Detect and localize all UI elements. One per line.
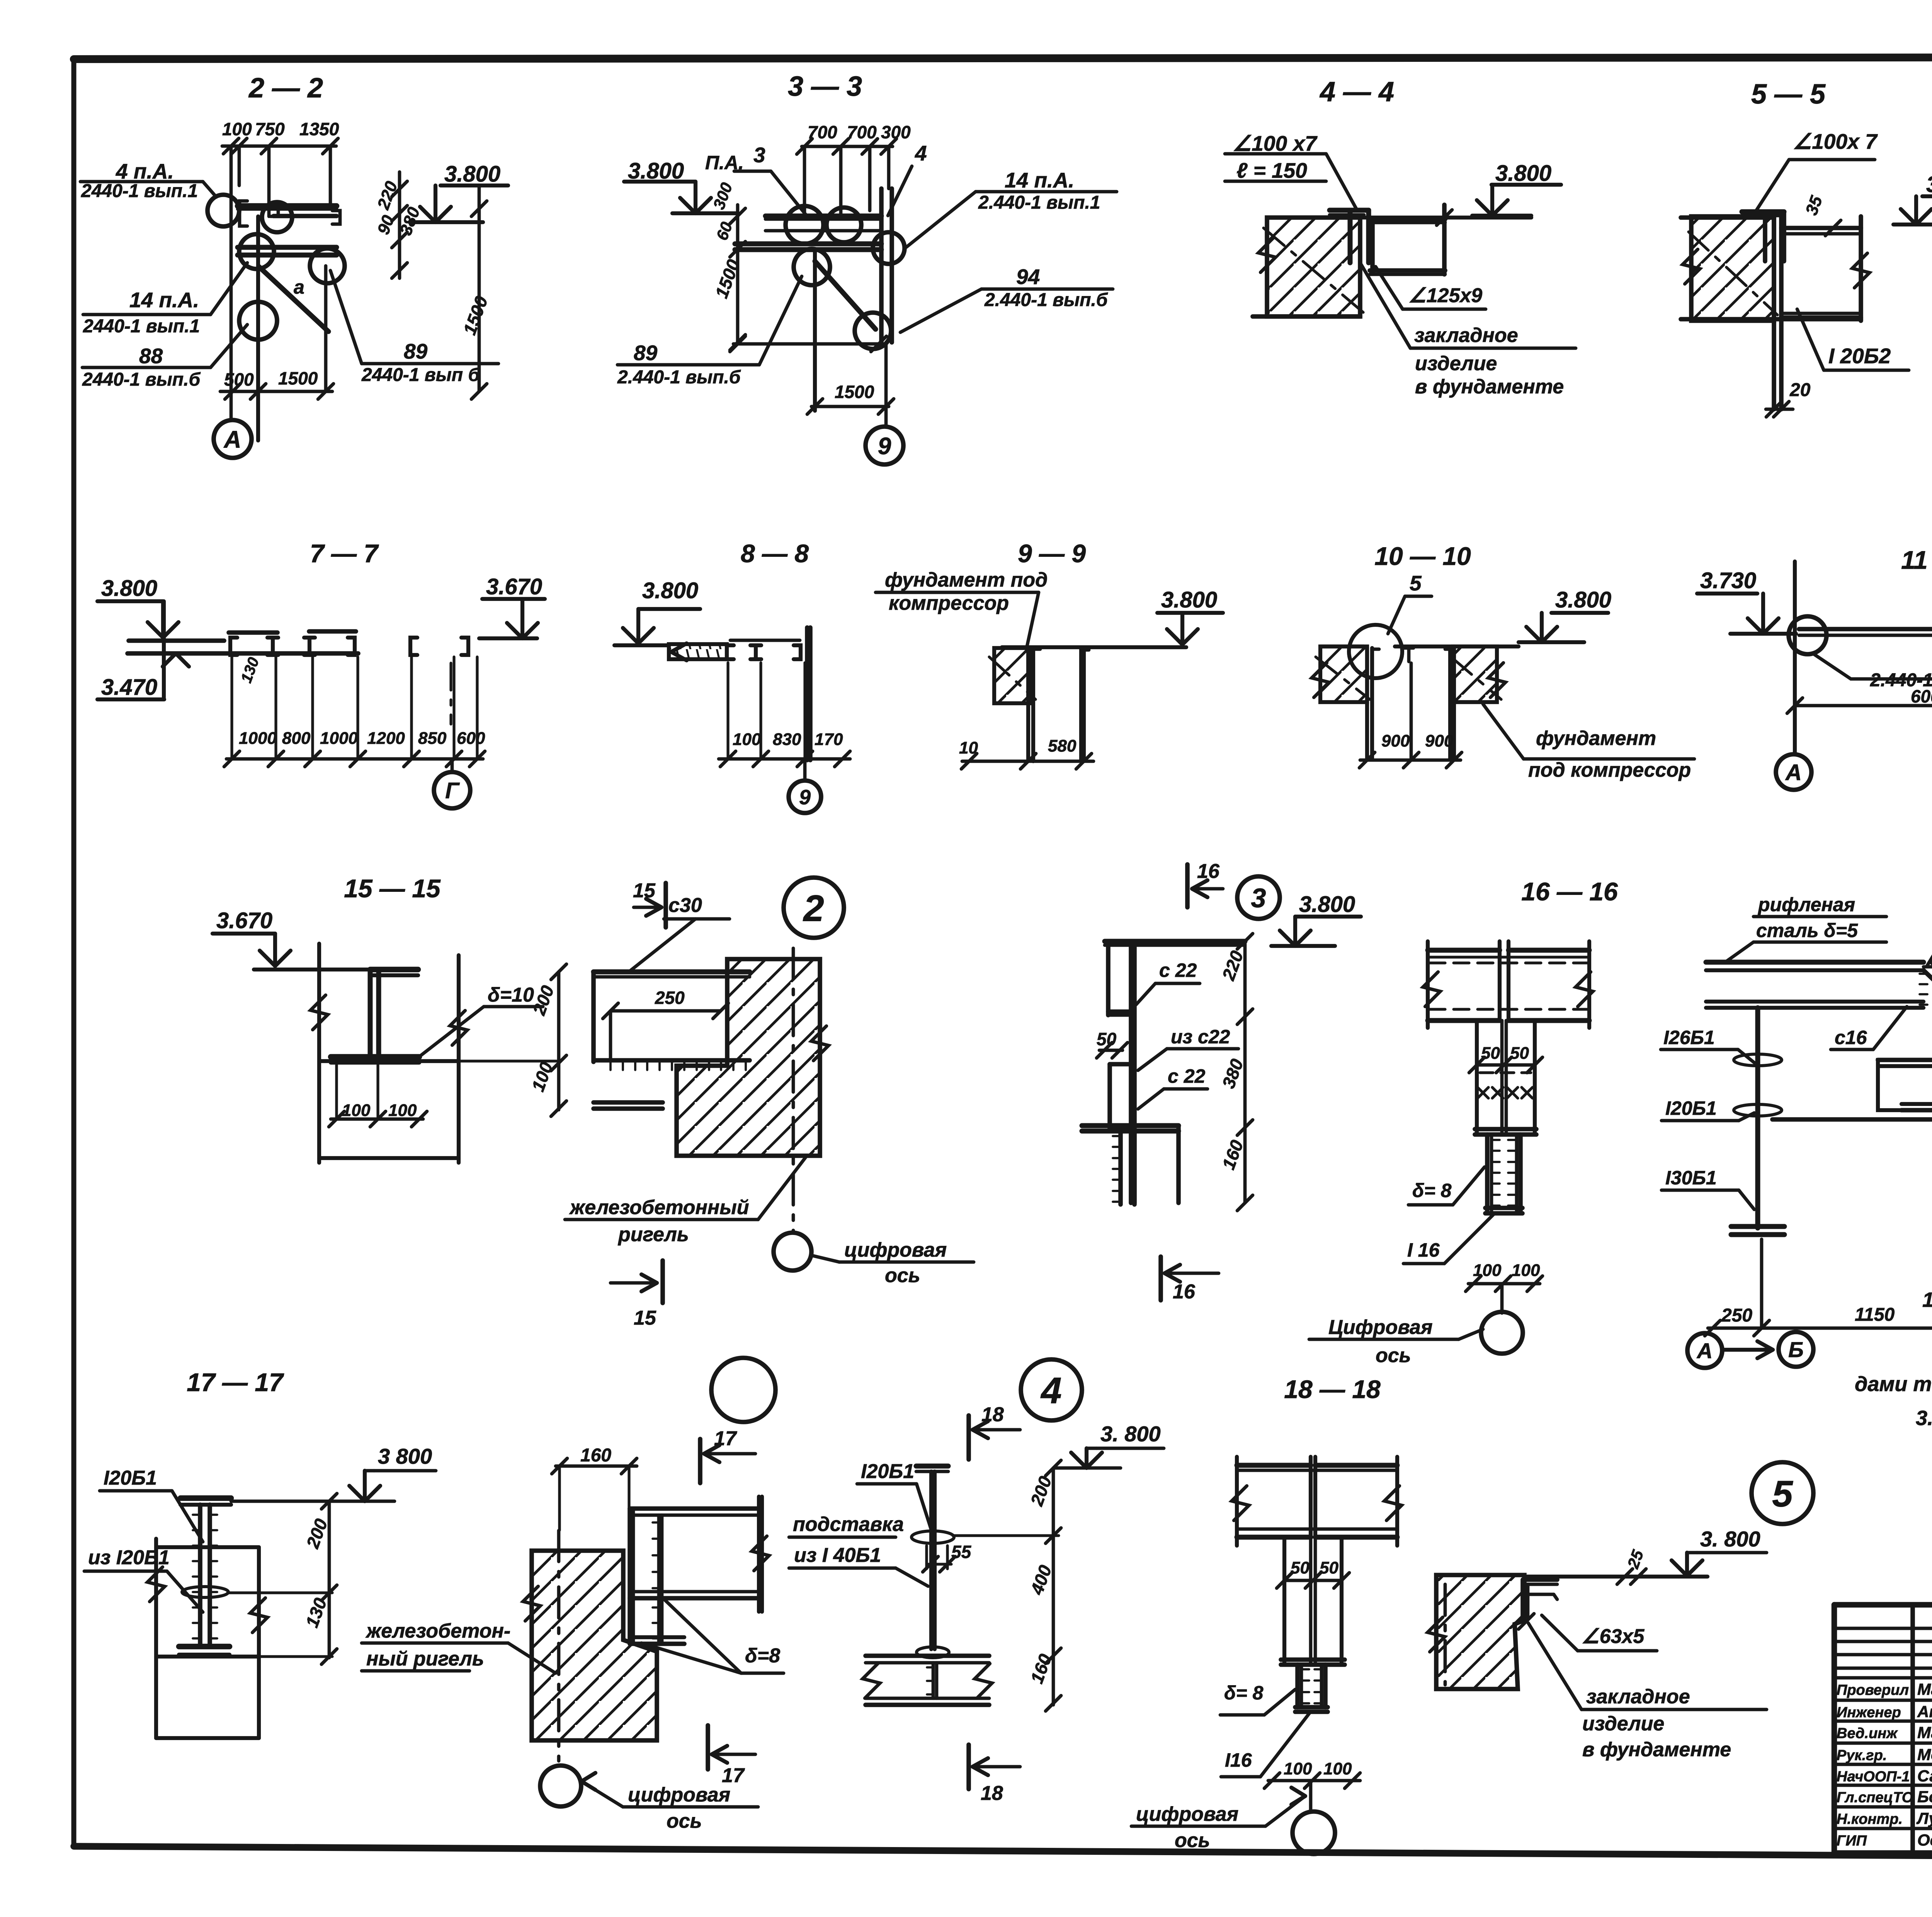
svg-text:14 п.А.: 14 п.А.	[1005, 168, 1074, 192]
svg-text:3.800: 3.800	[642, 578, 698, 603]
svg-text:ный ригель: ный ригель	[366, 1648, 484, 1670]
svg-text:Моргунов: Моргунов	[1917, 1745, 1932, 1764]
svg-text:3.800: 3.800	[1495, 161, 1551, 186]
svg-text:17: 17	[722, 1764, 745, 1787]
svg-text:Н.контр.: Н.контр.	[1837, 1811, 1903, 1827]
svg-text:18 — 18: 18 — 18	[1284, 1375, 1381, 1403]
svg-text:16: 16	[1197, 860, 1220, 883]
svg-text:I30Б1: I30Б1	[1665, 1167, 1717, 1189]
svg-text:9 — 9: 9 — 9	[1018, 539, 1086, 568]
svg-text:рифленая: рифленая	[1757, 894, 1855, 915]
svg-text:Боярченко: Боярченко	[1917, 1788, 1932, 1806]
svg-text:16 — 16: 16 — 16	[1521, 877, 1618, 906]
svg-text:3 — 3: 3 — 3	[788, 71, 862, 102]
svg-text:3.670: 3.670	[216, 908, 272, 933]
svg-text:I 16: I 16	[1407, 1239, 1440, 1261]
svg-text:5: 5	[1410, 571, 1422, 595]
svg-text:А: А	[223, 426, 241, 453]
svg-text:из I 40Б1: из I 40Б1	[794, 1544, 881, 1567]
svg-text:1500: 1500	[278, 368, 318, 388]
svg-text:4 — 4: 4 — 4	[1319, 77, 1394, 107]
svg-text:100: 100	[222, 119, 252, 139]
svg-text:δ=10: δ=10	[488, 984, 534, 1006]
svg-text:88: 88	[139, 344, 163, 368]
svg-text:Осташевский: Осташевский	[1917, 1831, 1932, 1849]
svg-text:3. 800: 3. 800	[1100, 1422, 1161, 1446]
svg-text:подставка: подставка	[793, 1513, 904, 1536]
svg-text:3.775: 3.775	[1926, 172, 1932, 197]
svg-text:89: 89	[634, 341, 658, 365]
svg-text:I16: I16	[1225, 1749, 1252, 1771]
svg-text:ℓ = 150: ℓ = 150	[1236, 158, 1307, 182]
svg-text:100: 100	[1512, 1261, 1540, 1280]
svg-text:Макарова: Макарова	[1917, 1723, 1932, 1742]
svg-text:160: 160	[580, 1445, 611, 1466]
svg-text:3.730: 3.730	[1700, 568, 1756, 593]
svg-text:изделие: изделие	[1415, 352, 1497, 375]
svg-text:закладное: закладное	[1414, 324, 1518, 347]
svg-text:железобетон-: железобетон-	[365, 1620, 510, 1642]
svg-text:I 20Б2: I 20Б2	[1828, 344, 1891, 368]
svg-text:1000: 1000	[320, 729, 358, 748]
svg-text:100: 100	[342, 1101, 371, 1120]
svg-text:20: 20	[1789, 380, 1811, 400]
svg-text:900: 900	[1381, 731, 1410, 750]
svg-text:ГИП: ГИП	[1837, 1833, 1867, 1849]
svg-text:17 — 17: 17 — 17	[187, 1368, 284, 1397]
svg-text:3: 3	[753, 143, 765, 167]
svg-text:89: 89	[404, 339, 428, 363]
svg-text:I20Б1: I20Б1	[1665, 1097, 1717, 1119]
svg-text:Инженер: Инженер	[1837, 1704, 1901, 1721]
svg-text:3: 3	[1251, 883, 1266, 913]
svg-text:3.800: 3.800	[1299, 892, 1355, 917]
svg-text:10: 10	[959, 738, 978, 757]
svg-text:ось: ось	[885, 1264, 920, 1287]
svg-text:3.470: 3.470	[101, 675, 157, 700]
svg-text:11 — 11: 11 — 11	[1901, 546, 1932, 574]
svg-text:под компрессор: под компрессор	[1528, 759, 1691, 781]
svg-text:850: 850	[418, 729, 447, 748]
svg-text:сталь δ=5: сталь δ=5	[1756, 920, 1858, 941]
svg-text:5 — 5: 5 — 5	[1751, 79, 1826, 110]
svg-text:250: 250	[655, 988, 685, 1008]
svg-text:∠100 х7: ∠100 х7	[1233, 131, 1318, 155]
svg-text:5: 5	[1772, 1473, 1793, 1515]
svg-text:с 22: с 22	[1159, 959, 1197, 981]
svg-text:1. Разрезы и узлы замаркиро: 1. Разрезы и узлы замаркированы на листа…	[1922, 1288, 1932, 1311]
svg-text:750: 750	[255, 119, 285, 139]
svg-text:14 п.А.: 14 п.А.	[129, 288, 199, 312]
svg-text:9: 9	[878, 433, 891, 459]
svg-text:А: А	[1785, 760, 1802, 785]
svg-text:I20Б1: I20Б1	[104, 1467, 157, 1489]
svg-text:3. Сварка ручная дуговая hш: 3. Сварка ручная дуговая hш =6 мм.	[1916, 1407, 1932, 1430]
svg-text:Андреева: Андреева	[1917, 1703, 1932, 1721]
svg-text:3 800: 3 800	[378, 1444, 432, 1468]
svg-text:Вед.инж: Вед.инж	[1837, 1725, 1898, 1742]
svg-text:580: 580	[1048, 737, 1077, 755]
svg-text:ось: ось	[1175, 1829, 1210, 1852]
svg-text:2.440-1 вып.б: 2.440-1 вып.б	[617, 367, 741, 388]
svg-text:ось: ось	[667, 1810, 702, 1832]
svg-text:закладное: закладное	[1586, 1686, 1690, 1708]
svg-text:δ= 8: δ= 8	[1412, 1180, 1452, 1201]
svg-text:железобетонный: железобетонный	[569, 1196, 749, 1219]
svg-text:1200: 1200	[367, 729, 405, 748]
svg-text:с 22: с 22	[1168, 1065, 1206, 1087]
svg-text:2.440-1 вып.б: 2.440-1 вып.б	[984, 290, 1108, 310]
svg-text:с30: с30	[668, 894, 702, 917]
svg-text:ось: ось	[1376, 1344, 1411, 1367]
svg-text:НачООП-1: НачООП-1	[1837, 1769, 1910, 1785]
svg-text:2440-1 вып.1: 2440-1 вып.1	[81, 181, 198, 201]
svg-text:∠125х9: ∠125х9	[1408, 284, 1482, 307]
svg-text:18: 18	[981, 1403, 1004, 1426]
svg-text:17: 17	[714, 1427, 737, 1450]
svg-text:50: 50	[1320, 1558, 1338, 1577]
svg-text:250: 250	[1721, 1305, 1752, 1326]
svg-text:Саакьянц: Саакьянц	[1917, 1767, 1932, 1785]
svg-text:3.800: 3.800	[101, 576, 157, 601]
svg-text:∠63х5: ∠63х5	[1582, 1625, 1645, 1648]
svg-text:А: А	[1696, 1339, 1713, 1363]
svg-text:δ=8: δ=8	[745, 1645, 780, 1667]
svg-text:Макарова: Макарова	[1917, 1680, 1932, 1698]
svg-text:Г: Г	[445, 778, 460, 803]
svg-text:2: 2	[803, 888, 824, 929]
svg-text:в фундаменте: в фундаменте	[1582, 1738, 1731, 1761]
svg-text:700: 700	[847, 122, 877, 142]
svg-text:900: 900	[1425, 731, 1454, 750]
svg-text:8 — 8: 8 — 8	[741, 539, 809, 568]
svg-text:3.800: 3.800	[1161, 587, 1217, 612]
svg-text:3. 800: 3. 800	[1700, 1527, 1760, 1551]
svg-text:9: 9	[799, 786, 811, 809]
svg-text:Луценко: Луценко	[1916, 1809, 1932, 1827]
svg-text:дами типа Э42 по ГОСТ 946: дами типа Э42 по ГОСТ 9467-75.	[1855, 1373, 1932, 1396]
svg-text:цифровая: цифровая	[1136, 1803, 1238, 1825]
svg-text:100: 100	[1284, 1759, 1312, 1778]
svg-text:3.670: 3.670	[486, 574, 542, 599]
svg-text:1500: 1500	[835, 382, 874, 402]
svg-text:Гл.спецТО: Гл.спецТО	[1837, 1789, 1913, 1806]
svg-text:компрессор: компрессор	[889, 592, 1009, 614]
svg-text:600: 600	[457, 729, 485, 748]
svg-text:2 — 2: 2 — 2	[248, 73, 323, 104]
svg-text:100: 100	[733, 730, 761, 749]
svg-text:7 — 7: 7 — 7	[310, 539, 379, 568]
svg-text:10 — 10: 10 — 10	[1374, 542, 1471, 570]
svg-text:4: 4	[915, 141, 927, 165]
svg-text:1350: 1350	[299, 119, 339, 139]
svg-text:94: 94	[1016, 265, 1040, 289]
svg-text:из с22: из с22	[1171, 1026, 1230, 1048]
svg-text:4 п.А.: 4 п.А.	[116, 159, 174, 183]
svg-text:100: 100	[1473, 1261, 1502, 1280]
svg-text:I20Б1: I20Б1	[861, 1460, 914, 1483]
svg-text:фундамент под: фундамент под	[885, 569, 1048, 591]
svg-text:2440-1 вып.1: 2440-1 вып.1	[83, 316, 200, 337]
svg-text:I26Б1: I26Б1	[1663, 1027, 1715, 1048]
svg-text:Б: Б	[1788, 1337, 1804, 1362]
svg-text:3.800: 3.800	[444, 162, 500, 187]
svg-text:в фундаменте: в фундаменте	[1415, 376, 1564, 398]
svg-text:6000: 6000	[1911, 686, 1932, 706]
svg-text:18: 18	[981, 1782, 1003, 1805]
svg-text:100: 100	[388, 1101, 417, 1120]
svg-text:ригель: ригель	[617, 1223, 689, 1246]
svg-text:Проверил: Проверил	[1837, 1682, 1909, 1698]
svg-text:Цифровая: Цифровая	[1328, 1316, 1432, 1339]
svg-text:Рук.гр.: Рук.гр.	[1837, 1747, 1887, 1764]
svg-text:170: 170	[815, 730, 843, 749]
svg-text:δ= 8: δ= 8	[1224, 1682, 1264, 1704]
svg-text:2440-1 вып б: 2440-1 вып б	[361, 365, 480, 385]
svg-text:a: a	[294, 276, 304, 298]
svg-text:50: 50	[1291, 1558, 1310, 1577]
svg-text:3.800: 3.800	[1555, 587, 1611, 612]
svg-text:цифровая: цифровая	[844, 1239, 947, 1261]
svg-text:800: 800	[282, 729, 311, 748]
svg-text:50: 50	[1510, 1044, 1529, 1063]
svg-text:16: 16	[1173, 1281, 1196, 1303]
svg-text:15 — 15: 15 — 15	[344, 874, 441, 903]
svg-text:2440-1 вып.б: 2440-1 вып.б	[82, 369, 201, 390]
svg-text:цифровая: цифровая	[628, 1784, 730, 1806]
svg-text:100: 100	[1323, 1759, 1352, 1778]
svg-text:4: 4	[1040, 1370, 1061, 1412]
svg-text:изделие: изделие	[1582, 1713, 1664, 1735]
svg-text:с16: с16	[1835, 1027, 1867, 1048]
svg-text:1000: 1000	[239, 729, 277, 748]
svg-text:фундамент: фундамент	[1536, 727, 1656, 750]
svg-text:∠100х 7: ∠100х 7	[1793, 129, 1878, 153]
svg-text:830: 830	[773, 730, 801, 749]
svg-text:15: 15	[634, 1307, 656, 1329]
svg-text:1150: 1150	[1855, 1305, 1895, 1325]
svg-text:2.440-1 вып.1: 2.440-1 вып.1	[978, 192, 1100, 213]
